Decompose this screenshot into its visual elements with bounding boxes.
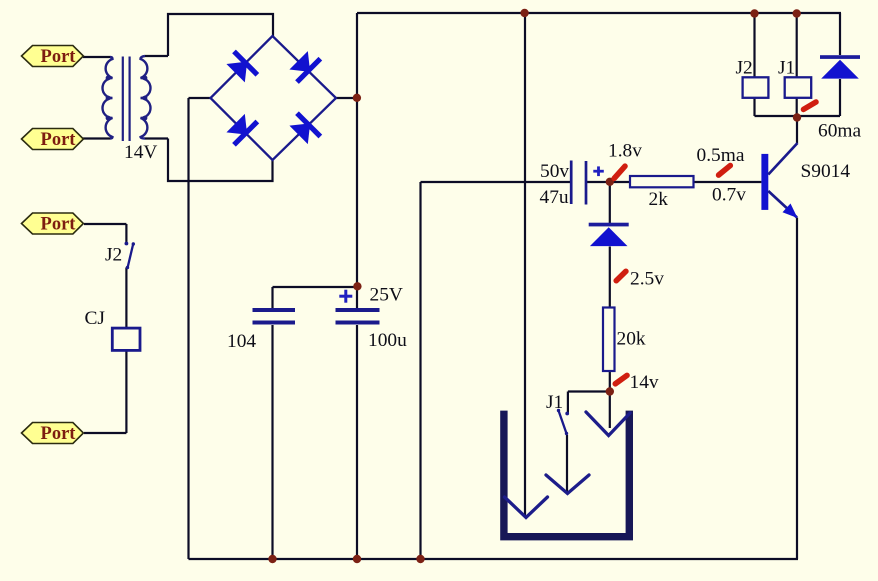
svg-text:J1: J1 bbox=[778, 58, 795, 79]
svg-text:Port: Port bbox=[41, 424, 77, 444]
svg-text:25V: 25V bbox=[370, 285, 403, 306]
svg-text:14V: 14V bbox=[124, 142, 157, 163]
svg-text:Port: Port bbox=[41, 130, 77, 150]
svg-text:20k: 20k bbox=[617, 328, 646, 349]
svg-text:50v: 50v bbox=[540, 161, 569, 182]
svg-text:104: 104 bbox=[227, 331, 256, 352]
svg-text:14v: 14v bbox=[630, 372, 659, 393]
svg-text:Port: Port bbox=[41, 215, 77, 235]
svg-text:0.7v: 0.7v bbox=[712, 184, 746, 205]
svg-text:J1: J1 bbox=[546, 392, 563, 413]
svg-text:S9014: S9014 bbox=[801, 161, 851, 182]
svg-text:2k: 2k bbox=[649, 189, 669, 210]
svg-text:0.5ma: 0.5ma bbox=[697, 145, 745, 166]
svg-text:J2: J2 bbox=[105, 245, 122, 266]
svg-text:Port: Port bbox=[41, 47, 77, 67]
svg-text:1.8v: 1.8v bbox=[608, 140, 642, 161]
svg-text:47u: 47u bbox=[540, 187, 569, 208]
svg-text:60ma: 60ma bbox=[818, 120, 861, 141]
svg-text:100u: 100u bbox=[368, 330, 407, 351]
svg-text:2.5v: 2.5v bbox=[630, 268, 664, 289]
svg-text:J2: J2 bbox=[736, 58, 753, 79]
svg-text:CJ: CJ bbox=[85, 308, 106, 329]
